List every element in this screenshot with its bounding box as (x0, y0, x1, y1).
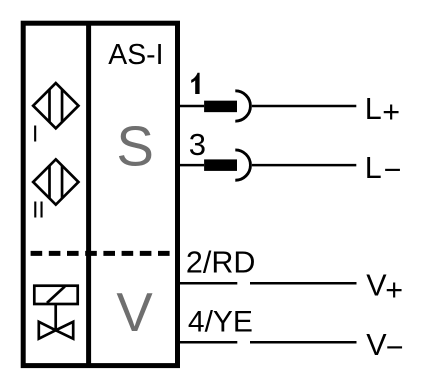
svg-text:L: L (365, 92, 382, 126)
module outline box U1 (23, 23, 177, 365)
valve body (bowtie) (39, 322, 73, 339)
svg-text:+: + (382, 95, 400, 129)
sensor symbol I (diamond) (33, 83, 78, 128)
wire pin 4 stub (178, 341, 238, 344)
wire L- (252, 164, 356, 167)
pin 1 label (Arial-style digit drawn as path) (191, 73, 199, 94)
svg-text:V: V (366, 269, 387, 303)
dashed separator line (23, 251, 177, 256)
wire V+ (250, 282, 357, 285)
sensor symbol II (diamond) (33, 159, 78, 204)
svg-text:S: S (116, 115, 154, 178)
svg-text:I: I (32, 120, 38, 146)
wire V- (250, 341, 357, 344)
pin 1 wire (box to plug) (178, 105, 205, 108)
wire pin 2 stub (178, 282, 238, 285)
pin 3 plug (black rectangle) (204, 159, 237, 171)
wire L+ (252, 105, 356, 108)
svg-text:+: + (385, 273, 403, 307)
svg-text:−: − (386, 330, 404, 364)
pin 1 socket arc (235, 91, 250, 121)
svg-text:II: II (32, 196, 45, 222)
svg-text:V: V (116, 282, 153, 343)
svg-text:3: 3 (189, 127, 206, 162)
internal divider wall (86, 23, 91, 365)
valve stem wire (54, 304, 57, 330)
pin 3 wire (box to plug) (178, 164, 205, 167)
svg-text:2/RD: 2/RD (186, 246, 256, 280)
pin 3 socket arc (235, 150, 250, 180)
valve solenoid coil (rectangle with diagonal) (34, 286, 77, 304)
svg-text:L: L (365, 151, 382, 185)
svg-text:4/YE: 4/YE (188, 306, 253, 339)
pin 1 plug (black rectangle) (204, 101, 237, 113)
svg-text:−: − (384, 153, 402, 187)
svg-text:V: V (366, 328, 387, 362)
svg-text:AS-I: AS-I (108, 39, 163, 71)
